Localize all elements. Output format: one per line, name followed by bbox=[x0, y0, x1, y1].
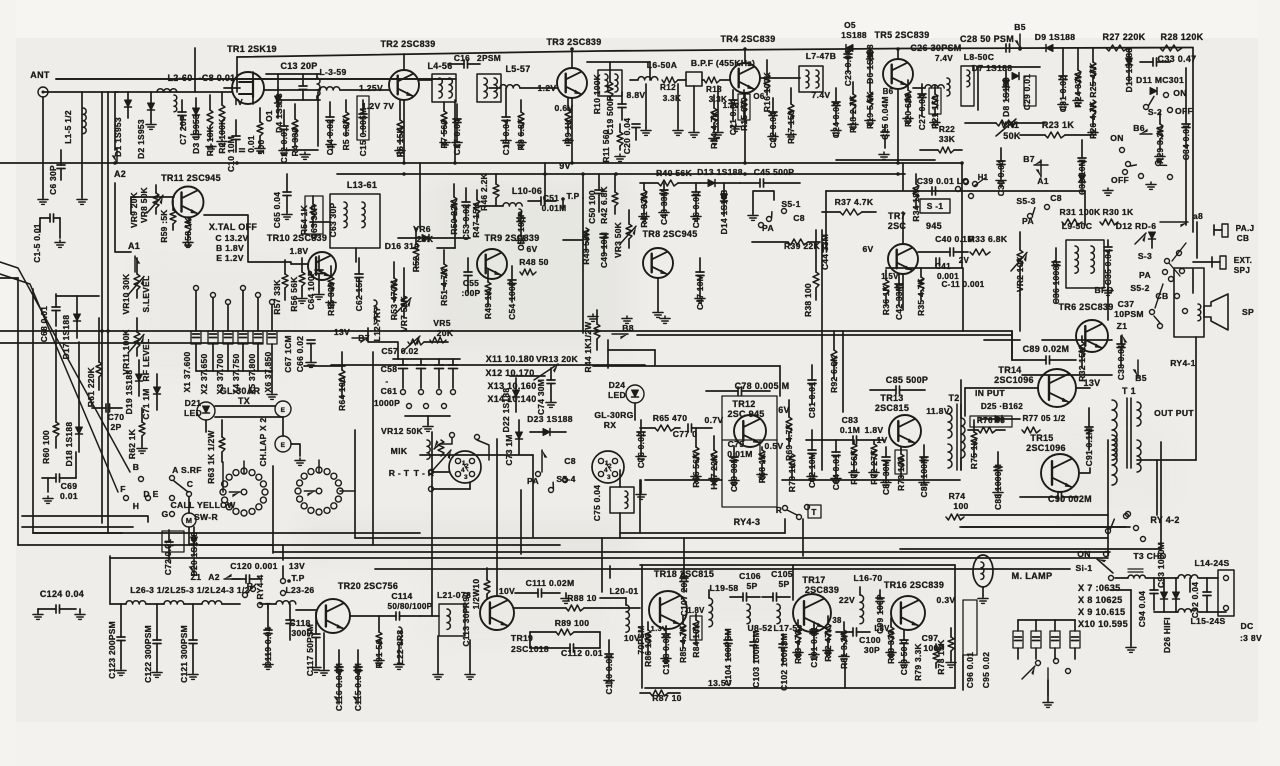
svg-text:D2 1S953: D2 1S953 bbox=[136, 119, 146, 159]
svg-text:TR3 2SC839: TR3 2SC839 bbox=[546, 37, 601, 47]
svg-text:C75 0.04: C75 0.04 bbox=[592, 485, 602, 521]
svg-text:C70: C70 bbox=[108, 412, 125, 422]
svg-text:CH.LAP X 2: CH.LAP X 2 bbox=[258, 417, 268, 466]
svg-text:C114: C114 bbox=[391, 591, 412, 601]
svg-text:L20-01: L20-01 bbox=[609, 586, 638, 596]
svg-text:C8: C8 bbox=[564, 456, 576, 466]
svg-text:S5-3: S5-3 bbox=[1016, 196, 1035, 206]
svg-text:R27 220K: R27 220K bbox=[1103, 32, 1146, 42]
svg-text:VR6: VR6 bbox=[413, 224, 431, 234]
svg-text:A1: A1 bbox=[128, 241, 140, 251]
svg-text:GL-30AR: GL-30AR bbox=[220, 386, 261, 396]
svg-text:C57 0.02: C57 0.02 bbox=[381, 346, 418, 356]
svg-text:R37 4.7K: R37 4.7K bbox=[835, 197, 874, 207]
svg-text:X13 10.160: X13 10.160 bbox=[487, 381, 536, 391]
svg-text:E: E bbox=[281, 407, 286, 414]
svg-text:C7 20P: C7 20P bbox=[178, 115, 188, 145]
svg-text:100: 100 bbox=[256, 140, 266, 155]
svg-text:R79 3.3K: R79 3.3K bbox=[913, 643, 923, 681]
svg-text:10PSM: 10PSM bbox=[1114, 309, 1144, 319]
svg-text:A2: A2 bbox=[114, 169, 126, 179]
svg-text:L2-60: L2-60 bbox=[167, 73, 192, 83]
svg-text:B6: B6 bbox=[883, 87, 894, 96]
svg-text:RX: RX bbox=[604, 420, 617, 430]
svg-text:1000P: 1000P bbox=[374, 398, 400, 408]
svg-text:L14-24S: L14-24S bbox=[1194, 558, 1229, 568]
svg-text:R48 50: R48 50 bbox=[519, 257, 549, 267]
svg-text:VR3 50K: VR3 50K bbox=[613, 222, 623, 258]
svg-text:5P: 5P bbox=[746, 581, 757, 591]
svg-text:1.5V: 1.5V bbox=[881, 272, 899, 281]
svg-text:R33 6.8K: R33 6.8K bbox=[969, 234, 1008, 244]
svg-text:C29 0.01: C29 0.01 bbox=[1022, 74, 1032, 110]
svg-text:L16-70: L16-70 bbox=[853, 573, 882, 583]
svg-text:R78 15K: R78 15K bbox=[936, 639, 946, 674]
svg-text:2SC1096: 2SC1096 bbox=[994, 375, 1034, 385]
svg-text:X 8 10625: X 8 10625 bbox=[1078, 595, 1123, 605]
svg-text:R54 1K: R54 1K bbox=[299, 205, 309, 235]
svg-text:C69: C69 bbox=[61, 481, 78, 491]
svg-text:L6-50A: L6-50A bbox=[647, 60, 677, 70]
svg-text:B: B bbox=[133, 462, 140, 472]
svg-text:PA: PA bbox=[1139, 270, 1151, 280]
svg-text:C13 20P: C13 20P bbox=[280, 61, 317, 71]
svg-text:8.8V: 8.8V bbox=[627, 90, 646, 100]
svg-text:E 1.2V: E 1.2V bbox=[216, 253, 244, 263]
svg-text:D23 1S188: D23 1S188 bbox=[527, 414, 573, 424]
svg-text:B.P.F (455KHz): B.P.F (455KHz) bbox=[691, 58, 755, 68]
svg-text:4: 4 bbox=[604, 467, 608, 474]
svg-text:R28 120K: R28 120K bbox=[1161, 32, 1204, 42]
svg-text:C28 50 PSM: C28 50 PSM bbox=[960, 34, 1014, 44]
svg-text:R77 05 1/2: R77 05 1/2 bbox=[1022, 414, 1065, 423]
svg-text:a8: a8 bbox=[1193, 211, 1203, 221]
svg-text:G: G bbox=[162, 509, 169, 519]
svg-text:SP: SP bbox=[1242, 307, 1254, 317]
svg-text:50/80/100P: 50/80/100P bbox=[388, 602, 433, 611]
svg-text:L19-58: L19-58 bbox=[709, 583, 738, 593]
svg-text:PA.J: PA.J bbox=[1236, 224, 1255, 233]
svg-text:TR8 2SC945: TR8 2SC945 bbox=[642, 229, 697, 239]
svg-text:C55: C55 bbox=[463, 278, 479, 288]
svg-text:LED: LED bbox=[608, 390, 626, 400]
svg-text:T2: T2 bbox=[948, 393, 959, 403]
svg-text:C94 0.04: C94 0.04 bbox=[1137, 591, 1147, 627]
svg-text:2SC1096: 2SC1096 bbox=[1026, 443, 1066, 453]
svg-text:PA: PA bbox=[1022, 216, 1034, 226]
svg-text:D9 1S188: D9 1S188 bbox=[1035, 32, 1076, 42]
svg-text:C105: C105 bbox=[771, 569, 793, 579]
svg-text:RY4-4: RY4-4 bbox=[255, 574, 265, 599]
svg-text:O1: O1 bbox=[264, 110, 274, 122]
svg-text:TR9 2SC839: TR9 2SC839 bbox=[484, 233, 539, 243]
svg-text:M: M bbox=[186, 516, 193, 525]
svg-text:OFF: OFF bbox=[1111, 175, 1129, 185]
svg-text:0.1M: 0.1M bbox=[840, 425, 860, 435]
svg-text:R65 470: R65 470 bbox=[653, 413, 688, 423]
svg-text:R31 100K: R31 100K bbox=[1059, 207, 1101, 217]
svg-text:ON: ON bbox=[1173, 88, 1187, 98]
svg-text:C100: C100 bbox=[859, 635, 881, 645]
svg-text:L25-3 1/2: L25-3 1/2 bbox=[170, 585, 209, 595]
svg-text:C66 0.02: C66 0.02 bbox=[295, 336, 305, 372]
svg-text:C111 0.02M: C111 0.02M bbox=[526, 578, 575, 588]
svg-text:L13-61: L13-61 bbox=[347, 180, 377, 190]
svg-text:R12: R12 bbox=[660, 83, 676, 92]
svg-text:F: F bbox=[120, 484, 126, 494]
svg-text:C73 1M: C73 1M bbox=[504, 434, 514, 465]
svg-text:TR5 2SC839: TR5 2SC839 bbox=[874, 30, 929, 40]
svg-text:R63 1K 1/2W: R63 1K 1/2W bbox=[206, 430, 216, 484]
svg-text:D18 1S188: D18 1S188 bbox=[64, 422, 74, 467]
svg-text:TX: TX bbox=[238, 396, 250, 406]
svg-text:R90: R90 bbox=[461, 592, 471, 608]
svg-text:C77 0: C77 0 bbox=[673, 429, 697, 439]
svg-text:C20 0.04: C20 0.04 bbox=[622, 118, 632, 154]
svg-text:D26 HIFI: D26 HIFI bbox=[1162, 617, 1172, 653]
svg-text:S5-2: S5-2 bbox=[1130, 283, 1149, 293]
svg-text:1V: 1V bbox=[876, 435, 887, 445]
svg-text:RY4-3: RY4-3 bbox=[734, 517, 761, 527]
svg-text:R59 :5K: R59 :5K bbox=[159, 209, 169, 242]
svg-text:M. LAMP: M. LAMP bbox=[1012, 571, 1053, 581]
svg-text:D19 1S188: D19 1S188 bbox=[124, 370, 134, 415]
svg-text:-C8 0.01: -C8 0.01 bbox=[199, 73, 236, 83]
svg-text:S.LEVEL: S.LEVEL bbox=[141, 275, 151, 312]
svg-text:ON: ON bbox=[1077, 549, 1091, 559]
svg-text:H: H bbox=[133, 501, 140, 511]
svg-text:C122 300PSM: C122 300PSM bbox=[143, 625, 153, 683]
svg-text:R40 56K: R40 56K bbox=[656, 168, 693, 178]
svg-text:C89 0.02M: C89 0.02M bbox=[1023, 344, 1070, 354]
svg-text:L26-3 1/2: L26-3 1/2 bbox=[130, 585, 169, 595]
svg-text:C124 0.04: C124 0.04 bbox=[40, 589, 84, 599]
svg-text:D17 1S188: D17 1S188 bbox=[61, 315, 71, 360]
svg-text:X1 37.600: X1 37.600 bbox=[182, 352, 192, 393]
svg-text:0.5V: 0.5V bbox=[765, 441, 784, 451]
svg-text:Si-1: Si-1 bbox=[1076, 563, 1093, 573]
svg-text:CB: CB bbox=[1237, 234, 1249, 243]
svg-text:X11 10.180: X11 10.180 bbox=[486, 354, 535, 364]
svg-text:13V: 13V bbox=[334, 327, 350, 337]
svg-text:A S.RF: A S.RF bbox=[172, 465, 202, 475]
svg-text:10V: 10V bbox=[499, 586, 515, 596]
svg-text:L9-50C: L9-50C bbox=[1062, 221, 1092, 231]
svg-text:0.7V: 0.7V bbox=[705, 415, 724, 425]
svg-text:C8: C8 bbox=[793, 213, 805, 223]
svg-text:R23 1K: R23 1K bbox=[1042, 120, 1075, 130]
svg-text:C90 002M: C90 002M bbox=[1048, 494, 1092, 504]
svg-text:R38 100: R38 100 bbox=[803, 283, 813, 317]
svg-text:R88 10: R88 10 bbox=[567, 593, 597, 603]
svg-text:C: C bbox=[187, 479, 194, 489]
svg-text:X10 10.595: X10 10.595 bbox=[1078, 619, 1128, 629]
svg-text:1.25V: 1.25V bbox=[359, 83, 383, 93]
svg-text:MIK: MIK bbox=[391, 446, 408, 456]
svg-text:H1: H1 bbox=[978, 173, 989, 182]
svg-text:0.01: 0.01 bbox=[246, 135, 256, 153]
svg-text:TR14: TR14 bbox=[998, 365, 1021, 375]
svg-text:ANT: ANT bbox=[30, 70, 50, 80]
svg-text:C58: C58 bbox=[381, 364, 398, 374]
svg-text:20K: 20K bbox=[417, 234, 434, 244]
svg-text:X2 37.650: X2 37.650 bbox=[199, 354, 209, 395]
svg-text:TR4 2SC839: TR4 2SC839 bbox=[720, 34, 775, 44]
svg-text:OFF: OFF bbox=[1175, 106, 1193, 116]
svg-text:1/2W10: 1/2W10 bbox=[471, 579, 481, 610]
svg-text:100: 100 bbox=[953, 501, 968, 511]
svg-text:C19 500P: C19 500P bbox=[605, 95, 615, 135]
svg-text:L22-3R3: L22-3R3 bbox=[395, 630, 405, 665]
svg-text:33K: 33K bbox=[939, 134, 955, 144]
svg-text:X14 10.140: X14 10.140 bbox=[487, 394, 536, 404]
svg-text:ON: ON bbox=[1110, 133, 1124, 143]
svg-text:22V: 22V bbox=[839, 595, 855, 605]
svg-text:R89 100: R89 100 bbox=[555, 618, 590, 628]
svg-text:B8: B8 bbox=[622, 323, 634, 333]
svg-text:B 1.8V: B 1.8V bbox=[216, 243, 244, 253]
svg-text:R13: R13 bbox=[706, 85, 722, 94]
svg-text:C95 0.02: C95 0.02 bbox=[981, 652, 991, 688]
svg-text:C112 0.01: C112 0.01 bbox=[561, 648, 603, 658]
svg-text:TR11 2SC945: TR11 2SC945 bbox=[161, 173, 221, 183]
svg-text:R56 56K: R56 56K bbox=[289, 276, 299, 311]
svg-text:PA: PA bbox=[527, 476, 539, 486]
svg-text:C117 50PSM: C117 50PSM bbox=[305, 624, 315, 676]
svg-text:R74: R74 bbox=[949, 491, 966, 501]
svg-text:R - T: R - T bbox=[389, 468, 410, 478]
svg-text:C68 0.01: C68 0.01 bbox=[39, 306, 49, 342]
svg-text:A2: A2 bbox=[208, 572, 220, 582]
svg-text:D1 1S953: D1 1S953 bbox=[113, 117, 123, 157]
svg-text:Z1: Z1 bbox=[191, 572, 202, 582]
svg-text:TR16 2SC839: TR16 2SC839 bbox=[884, 580, 944, 590]
svg-text:C37: C37 bbox=[1118, 299, 1135, 309]
svg-text:1.2V: 1.2V bbox=[538, 83, 557, 93]
svg-text:A1: A1 bbox=[1037, 176, 1049, 186]
svg-text:D24: D24 bbox=[609, 380, 626, 390]
svg-text:R57 33K: R57 33K bbox=[272, 279, 282, 314]
svg-text:DC: DC bbox=[1240, 621, 1253, 631]
svg-text:IV: IV bbox=[235, 98, 244, 107]
svg-text:C8: C8 bbox=[1050, 193, 1062, 203]
svg-text:2V: 2V bbox=[959, 256, 970, 265]
svg-text:GL-30RG: GL-30RG bbox=[594, 410, 633, 420]
svg-text:C61: C61 bbox=[381, 386, 398, 396]
svg-text:C120 0.001: C120 0.001 bbox=[230, 561, 277, 571]
svg-text:1.3V: 1.3V bbox=[651, 624, 668, 633]
svg-text:TR1 2SK19: TR1 2SK19 bbox=[227, 44, 277, 54]
svg-text:11.8V: 11.8V bbox=[926, 406, 949, 416]
svg-text:R62 1K: R62 1K bbox=[127, 429, 137, 459]
svg-text:Z1: Z1 bbox=[1117, 321, 1128, 331]
svg-text:13V: 13V bbox=[289, 561, 305, 571]
svg-text:R30 1K: R30 1K bbox=[1103, 207, 1134, 217]
svg-text:L7-47B: L7-47B bbox=[806, 51, 836, 61]
svg-text:-: - bbox=[385, 376, 388, 386]
svg-text:C63 30P: C63 30P bbox=[328, 203, 338, 238]
svg-text:L-3-59: L-3-59 bbox=[319, 67, 346, 77]
svg-text:O5: O5 bbox=[844, 20, 856, 30]
svg-text:T: T bbox=[811, 508, 816, 517]
svg-text:2P: 2P bbox=[110, 422, 121, 432]
svg-text:0.3V: 0.3V bbox=[937, 595, 956, 605]
svg-text::00P: :00P bbox=[462, 288, 481, 298]
svg-text:1S188: 1S188 bbox=[841, 30, 867, 40]
svg-text:38: 38 bbox=[832, 616, 842, 625]
svg-text:R61 220K: R61 220K bbox=[86, 367, 96, 407]
svg-text:20K: 20K bbox=[437, 328, 454, 338]
svg-text:D11 MC301: D11 MC301 bbox=[1136, 75, 1184, 85]
svg-text:T.P: T.P bbox=[291, 573, 304, 583]
svg-text:OUT PUT: OUT PUT bbox=[1154, 408, 1194, 418]
svg-text:B5: B5 bbox=[1014, 22, 1026, 32]
svg-text:C103 100PSM: C103 100PSM bbox=[751, 630, 761, 688]
svg-text:VR13 20K: VR13 20K bbox=[536, 354, 579, 364]
svg-text:C102 100PSM: C102 100PSM bbox=[779, 633, 789, 691]
svg-text:L8-50C: L8-50C bbox=[964, 52, 994, 62]
svg-text:1.8V: 1.8V bbox=[865, 425, 884, 435]
svg-text:C44 33M: C44 33M bbox=[820, 234, 830, 270]
svg-text:TR12: TR12 bbox=[732, 399, 755, 409]
svg-text:T.P: T.P bbox=[567, 191, 580, 201]
svg-text:L5-57: L5-57 bbox=[505, 64, 530, 74]
svg-text:5P: 5P bbox=[778, 579, 789, 589]
svg-text:R: R bbox=[776, 506, 782, 515]
svg-text:C64 100P: C64 100P bbox=[306, 270, 316, 310]
svg-text:IN PUT: IN PUT bbox=[975, 388, 1005, 398]
svg-text:13.5V: 13.5V bbox=[708, 678, 732, 688]
svg-text:7.4V: 7.4V bbox=[935, 54, 953, 63]
svg-text:E: E bbox=[281, 442, 286, 449]
svg-text:TR17: TR17 bbox=[802, 575, 825, 585]
svg-text:T 1: T 1 bbox=[1122, 386, 1136, 396]
svg-text:C45 500P: C45 500P bbox=[754, 167, 795, 177]
svg-text:C74 30M: C74 30M bbox=[536, 379, 546, 415]
svg-text:SW-R: SW-R bbox=[194, 512, 218, 522]
svg-text:50K: 50K bbox=[1003, 131, 1021, 141]
svg-text:3: 3 bbox=[607, 474, 611, 481]
svg-text:4: 4 bbox=[461, 467, 465, 474]
svg-text:RY4-1: RY4-1 bbox=[1170, 358, 1196, 368]
svg-text:B6: B6 bbox=[1133, 123, 1145, 133]
svg-text:X6 37.850: X6 37.850 bbox=[263, 352, 273, 393]
svg-text:0.01: 0.01 bbox=[60, 491, 78, 501]
svg-text:C67 1CM: C67 1CM bbox=[283, 335, 293, 372]
svg-text:1.8V: 1.8V bbox=[290, 246, 309, 256]
svg-text:VR12 50K: VR12 50K bbox=[381, 426, 424, 436]
svg-text:B7: B7 bbox=[1023, 154, 1035, 164]
svg-text:TR20 2SC756: TR20 2SC756 bbox=[338, 581, 398, 591]
svg-text:BFO: BFO bbox=[1094, 285, 1113, 295]
svg-text:R60 100: R60 100 bbox=[41, 430, 51, 464]
svg-text:D13 1S188: D13 1S188 bbox=[697, 167, 743, 177]
svg-text:L4-56: L4-56 bbox=[427, 61, 452, 71]
svg-text:TR13: TR13 bbox=[880, 393, 903, 403]
svg-text:TR15: TR15 bbox=[1030, 433, 1053, 443]
svg-text:RY 4-2: RY 4-2 bbox=[1150, 515, 1179, 525]
svg-text:C50 100: C50 100 bbox=[587, 190, 597, 224]
svg-text:C96 0.01: C96 0.01 bbox=[965, 652, 975, 688]
svg-text:VR8 50K: VR8 50K bbox=[139, 187, 149, 223]
svg-text:C25 0.04M: C25 0.04M bbox=[880, 96, 890, 140]
svg-text:D25 ·B162: D25 ·B162 bbox=[981, 402, 1023, 411]
svg-text:R22: R22 bbox=[939, 124, 955, 134]
svg-text:C26 30PSM: C26 30PSM bbox=[910, 43, 961, 53]
svg-text:L15-24S: L15-24S bbox=[1190, 616, 1225, 626]
svg-text:S -1: S -1 bbox=[927, 201, 944, 211]
svg-text:2PSM: 2PSM bbox=[477, 53, 501, 63]
svg-text:C 13.2V: C 13.2V bbox=[215, 233, 248, 243]
svg-text:945: 945 bbox=[926, 221, 942, 231]
svg-text:6V: 6V bbox=[526, 244, 537, 254]
svg-text:C41: C41 bbox=[935, 262, 951, 271]
svg-text:C85 500P: C85 500P bbox=[886, 375, 928, 385]
svg-text:R10 100K: R10 100K bbox=[592, 74, 602, 114]
svg-text:6V: 6V bbox=[862, 244, 873, 254]
svg-text:S-3: S-3 bbox=[1138, 251, 1152, 261]
svg-text:3: 3 bbox=[464, 474, 468, 481]
svg-text:C92 0.04: C92 0.04 bbox=[1190, 582, 1200, 618]
svg-text:VR5: VR5 bbox=[433, 318, 451, 328]
svg-text:EXT.: EXT. bbox=[1234, 256, 1253, 265]
svg-text:R42 6.8K: R42 6.8K bbox=[599, 186, 609, 224]
svg-text:30P: 30P bbox=[864, 645, 880, 655]
svg-text::3 8V: :3 8V bbox=[1240, 633, 1262, 643]
svg-text:70PSM: 70PSM bbox=[636, 626, 646, 655]
svg-text:L23-26: L23-26 bbox=[285, 585, 314, 595]
svg-text:L10-06: L10-06 bbox=[512, 186, 542, 196]
svg-text:TR6 2SC839: TR6 2SC839 bbox=[1058, 302, 1113, 312]
svg-text:9V: 9V bbox=[559, 161, 571, 171]
svg-text:X 9 10.615: X 9 10.615 bbox=[1078, 607, 1125, 617]
svg-text:X.TAL OFF: X.TAL OFF bbox=[209, 222, 258, 232]
svg-text:R11 560: R11 560 bbox=[601, 129, 611, 162]
svg-text:6V: 6V bbox=[778, 405, 790, 415]
svg-text:C78 0.005 M: C78 0.005 M bbox=[735, 381, 790, 391]
svg-text:C72 0.01: C72 0.01 bbox=[163, 539, 173, 575]
svg-text:2SC815: 2SC815 bbox=[875, 403, 909, 413]
svg-text:S5-1: S5-1 bbox=[781, 199, 800, 209]
svg-text:X 7 :0635: X 7 :0635 bbox=[1078, 583, 1121, 593]
svg-text:C83: C83 bbox=[842, 415, 859, 425]
svg-text:X12 10.170: X12 10.170 bbox=[485, 368, 534, 378]
svg-text:13V: 13V bbox=[1084, 378, 1101, 388]
svg-text:C65 0.04: C65 0.04 bbox=[272, 192, 282, 228]
svg-text:D12 RD-6: D12 RD-6 bbox=[1116, 221, 1157, 231]
svg-text:SPJ: SPJ bbox=[1234, 266, 1250, 275]
svg-text:C6 30P: C6 30P bbox=[48, 165, 58, 195]
svg-text:L1-5 1/2: L1-5 1/2 bbox=[63, 110, 73, 144]
svg-text:C106: C106 bbox=[739, 571, 761, 581]
svg-text:TR2 2SC839: TR2 2SC839 bbox=[380, 39, 435, 49]
svg-text:R76 68: R76 68 bbox=[977, 416, 1005, 425]
svg-text:D16 310: D16 310 bbox=[385, 241, 420, 251]
